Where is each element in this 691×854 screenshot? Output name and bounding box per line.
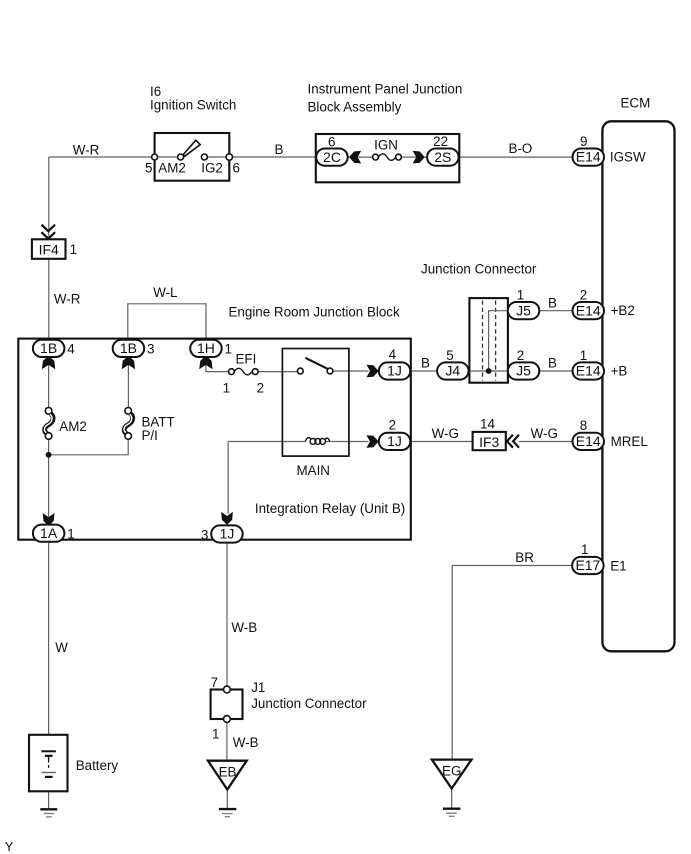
svg-text:IGSW: IGSW xyxy=(610,150,646,165)
svg-text:1B: 1B xyxy=(40,340,57,356)
svg-text:5: 5 xyxy=(145,161,152,176)
svg-text:J5: J5 xyxy=(516,363,531,379)
svg-text:4: 4 xyxy=(67,341,75,356)
svg-text:W-B: W-B xyxy=(233,735,259,750)
svg-text:+B: +B xyxy=(611,364,628,379)
svg-text:Junction Connector: Junction Connector xyxy=(251,696,367,711)
svg-text:3: 3 xyxy=(201,528,208,543)
svg-text:6: 6 xyxy=(328,135,335,150)
svg-text:22: 22 xyxy=(433,134,448,149)
svg-text:6: 6 xyxy=(233,161,240,176)
svg-text:Instrument Panel Junction: Instrument Panel Junction xyxy=(308,82,463,97)
svg-text:2: 2 xyxy=(257,381,264,396)
svg-text:W-B: W-B xyxy=(231,620,257,635)
svg-text:Battery: Battery xyxy=(76,758,119,773)
svg-text:1H: 1H xyxy=(197,340,215,356)
svg-text:2: 2 xyxy=(517,348,524,363)
svg-text:Junction Connector: Junction Connector xyxy=(421,262,537,277)
svg-text:2: 2 xyxy=(580,288,587,303)
svg-text:W-L: W-L xyxy=(153,285,177,300)
svg-text:IGN: IGN xyxy=(374,138,398,153)
svg-text:1: 1 xyxy=(580,348,587,363)
svg-text:B-O: B-O xyxy=(509,141,533,156)
svg-text:B: B xyxy=(421,356,430,371)
svg-text:AM2: AM2 xyxy=(59,419,87,434)
svg-text:B: B xyxy=(548,296,557,311)
svg-text:ECM: ECM xyxy=(621,96,651,111)
svg-text:Y: Y xyxy=(5,840,14,854)
svg-text:1: 1 xyxy=(212,727,219,742)
svg-text:MAIN: MAIN xyxy=(297,463,330,478)
svg-text:E14: E14 xyxy=(576,363,601,379)
svg-text:1B: 1B xyxy=(120,340,137,356)
svg-text:E14: E14 xyxy=(576,302,601,318)
svg-text:MREL: MREL xyxy=(611,434,648,449)
svg-text:14: 14 xyxy=(480,417,495,432)
svg-text:J5: J5 xyxy=(516,302,531,318)
svg-text:1: 1 xyxy=(223,381,230,396)
svg-text:1J: 1J xyxy=(387,363,402,379)
svg-text:E14: E14 xyxy=(576,433,601,449)
svg-text:BR: BR xyxy=(515,550,534,565)
svg-text:2S: 2S xyxy=(434,149,451,165)
svg-text:4: 4 xyxy=(389,347,397,362)
svg-text:7: 7 xyxy=(211,675,218,690)
svg-text:3: 3 xyxy=(147,341,154,356)
svg-text:E17: E17 xyxy=(575,557,600,573)
svg-text:1: 1 xyxy=(225,341,232,356)
svg-text:Block Assembly: Block Assembly xyxy=(308,100,402,115)
svg-text:IF4: IF4 xyxy=(39,242,59,258)
svg-text:J4: J4 xyxy=(445,363,460,379)
svg-text:9: 9 xyxy=(580,134,587,149)
svg-text:E1: E1 xyxy=(610,559,626,574)
svg-text:E14: E14 xyxy=(576,149,601,165)
svg-text:W-R: W-R xyxy=(54,292,81,307)
svg-text:W-R: W-R xyxy=(73,142,100,157)
svg-text:EFI: EFI xyxy=(236,352,257,367)
svg-text:P/I: P/I xyxy=(142,428,158,443)
svg-text:B: B xyxy=(548,356,557,371)
svg-text:2C: 2C xyxy=(323,149,341,165)
svg-text:8: 8 xyxy=(580,418,587,433)
svg-text:IF3: IF3 xyxy=(479,434,499,450)
svg-text:1: 1 xyxy=(67,527,74,542)
svg-text:B: B xyxy=(275,142,284,157)
svg-text:W: W xyxy=(55,640,68,655)
svg-text:IG2: IG2 xyxy=(201,161,223,176)
svg-text:W-G: W-G xyxy=(432,426,459,441)
svg-text:Integration Relay (Unit B): Integration Relay (Unit B) xyxy=(255,501,405,516)
svg-text:1J: 1J xyxy=(387,433,402,449)
svg-text:Ignition Switch: Ignition Switch xyxy=(150,98,236,113)
svg-text:EG: EG xyxy=(442,763,461,778)
svg-text:1A: 1A xyxy=(40,525,58,541)
svg-text:1J: 1J xyxy=(220,526,235,542)
svg-text:5: 5 xyxy=(446,348,453,363)
svg-text:1: 1 xyxy=(70,242,77,257)
svg-text:1: 1 xyxy=(581,542,588,557)
svg-text:AM2: AM2 xyxy=(158,161,186,176)
svg-text:J1: J1 xyxy=(251,680,265,695)
svg-text:+B2: +B2 xyxy=(611,303,635,318)
svg-text:1: 1 xyxy=(517,288,524,303)
svg-text:Engine Room Junction Block: Engine Room Junction Block xyxy=(229,305,400,320)
svg-text:EB: EB xyxy=(219,764,237,779)
svg-text:W-G: W-G xyxy=(531,426,558,441)
svg-text:2: 2 xyxy=(389,418,396,433)
